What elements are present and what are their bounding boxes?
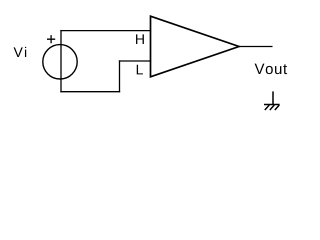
label H (op-amp non-inverting input pin) bbox=[136, 34, 144, 44]
wire: bottom horizontal from source bottom bbox=[61, 91, 120, 93]
op-amp U1 (triangle body) bbox=[151, 16, 240, 77]
wire: vertical riser to L input bbox=[119, 61, 121, 92]
label Vout (output node) bbox=[255, 64, 287, 74]
wire: output from op-amp apex to Vout node bbox=[239, 46, 273, 48]
wire: top horizontal from source to op-amp H input bbox=[61, 30, 151, 32]
ground: stem bbox=[272, 91, 274, 104]
label Vi (input source name) bbox=[14, 47, 27, 57]
ground: bar bbox=[264, 104, 280, 106]
voltage source Vi (circle) bbox=[43, 45, 77, 79]
ground: hatch ticks bbox=[265, 105, 280, 110]
plus sign (source polarity) bbox=[47, 35, 55, 43]
wire: vertical segment through source Vi (node A riser) bbox=[60, 31, 62, 92]
wire: L input stub into op-amp bbox=[120, 60, 151, 62]
label L (op-amp inverting input pin) bbox=[137, 65, 143, 75]
